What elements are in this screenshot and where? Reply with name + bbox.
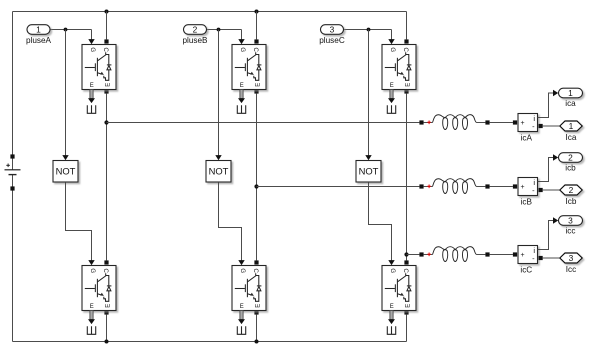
svg-text:NOT: NOT	[209, 166, 229, 177]
svg-text:E: E	[390, 304, 394, 310]
svg-text:E: E	[405, 83, 411, 87]
svg-text:G: G	[89, 268, 95, 273]
svg-text:E: E	[240, 83, 244, 89]
svg-text:E: E	[105, 83, 111, 87]
svg-text:2: 2	[193, 25, 198, 35]
svg-text:G: G	[239, 47, 245, 52]
svg-text:Ica: Ica	[566, 133, 577, 142]
svg-text:C: C	[102, 48, 108, 53]
svg-text:C: C	[102, 269, 108, 274]
svg-text:C: C	[252, 48, 258, 53]
svg-text:2: 2	[569, 185, 574, 195]
svg-text:3: 3	[569, 253, 574, 263]
svg-text:+: +	[521, 120, 525, 127]
svg-text:icC: icC	[520, 265, 532, 274]
svg-text:pluseC: pluseC	[319, 36, 345, 45]
svg-text:1: 1	[568, 88, 573, 98]
svg-text:C: C	[252, 269, 258, 274]
svg-text:+: +	[521, 252, 525, 259]
svg-text:icb: icb	[565, 164, 576, 173]
svg-text:E: E	[105, 304, 111, 308]
svg-text:2: 2	[568, 153, 573, 163]
svg-text:C: C	[402, 48, 408, 53]
svg-text:Icc: Icc	[566, 265, 576, 274]
svg-text:NOT: NOT	[359, 166, 379, 177]
svg-text:icB: icB	[521, 197, 533, 206]
svg-text:G: G	[89, 47, 95, 52]
svg-text:E: E	[255, 83, 261, 87]
svg-text:E: E	[255, 304, 261, 308]
svg-text:3: 3	[330, 25, 335, 35]
svg-text:icc: icc	[565, 227, 575, 236]
svg-text:+: +	[521, 184, 525, 191]
svg-text:1: 1	[569, 121, 574, 131]
svg-text:G: G	[239, 268, 245, 273]
svg-text:E: E	[240, 304, 244, 310]
svg-text:E: E	[405, 304, 411, 308]
svg-text:pluseB: pluseB	[182, 36, 208, 45]
svg-text:E: E	[390, 83, 394, 89]
svg-text:pluseA: pluseA	[26, 36, 52, 45]
svg-text:C: C	[402, 269, 408, 274]
svg-text:E: E	[90, 304, 94, 310]
svg-text:G: G	[389, 268, 395, 273]
svg-text:Icb: Icb	[566, 197, 577, 206]
svg-text:G: G	[389, 47, 395, 52]
svg-text:icA: icA	[521, 133, 533, 142]
svg-text:1: 1	[36, 25, 41, 35]
svg-text:ica: ica	[565, 99, 576, 108]
svg-text:NOT: NOT	[56, 166, 76, 177]
svg-text:3: 3	[568, 216, 573, 226]
svg-text:E: E	[90, 83, 94, 89]
